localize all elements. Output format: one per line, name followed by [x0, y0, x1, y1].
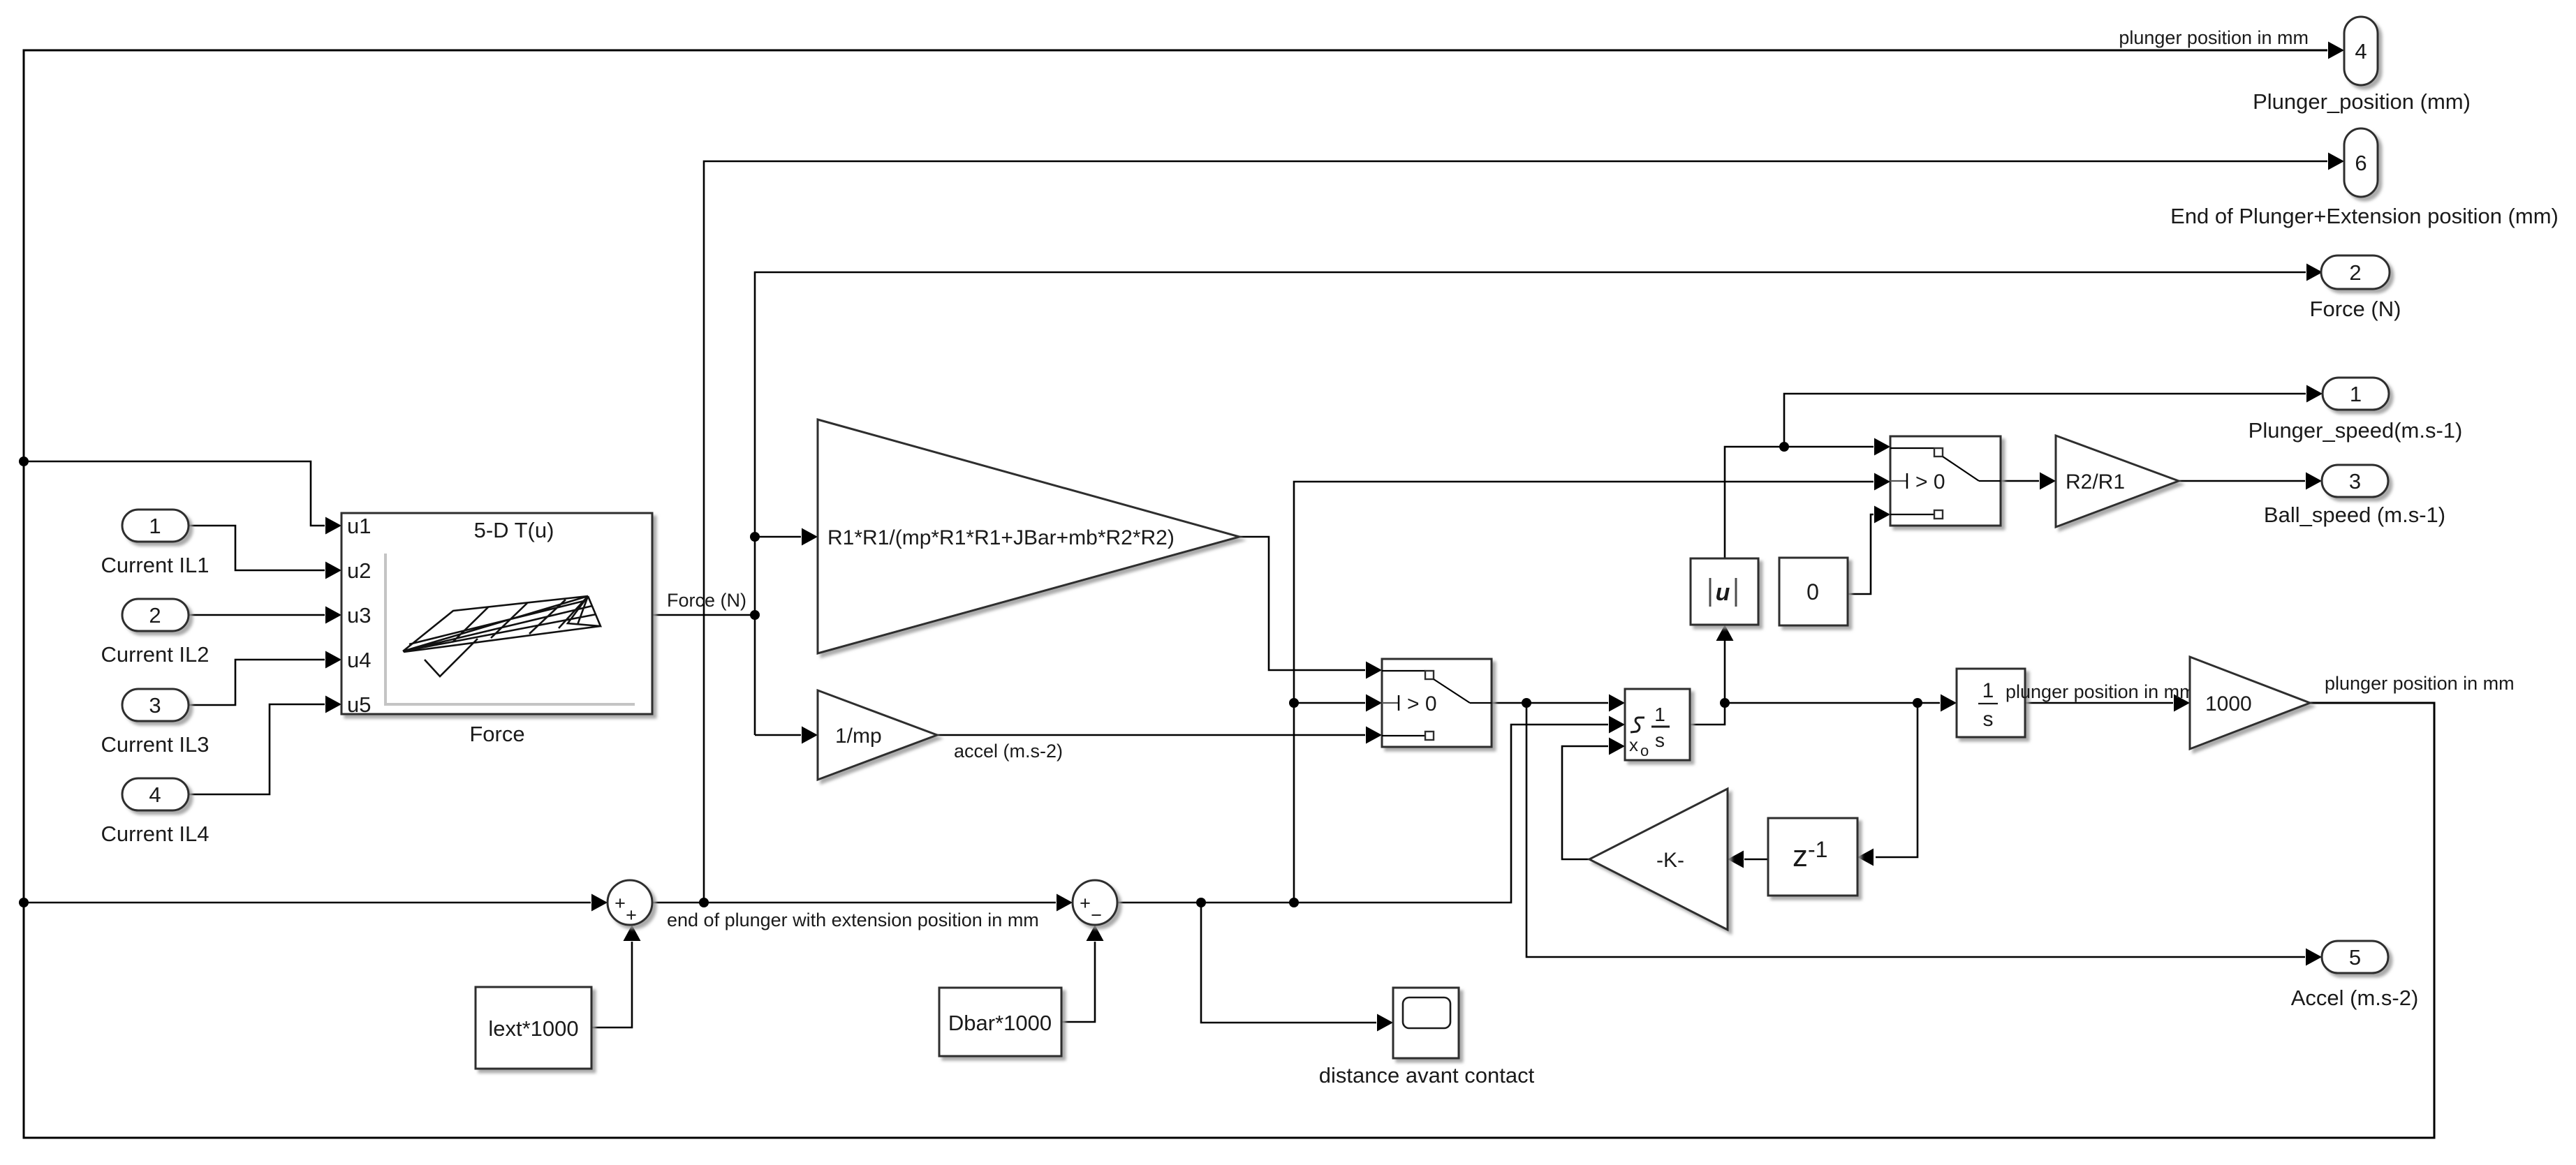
svg-text:Force (N): Force (N) — [667, 590, 746, 611]
svg-text:u2: u2 — [347, 558, 371, 583]
svg-text:x: x — [1629, 734, 1638, 755]
svg-text:1: 1 — [2350, 382, 2362, 406]
svg-text:+: + — [1080, 893, 1091, 914]
svg-text:Plunger_speed(m.s-1): Plunger_speed(m.s-1) — [2249, 418, 2463, 443]
svg-text:Accel (m.s-2): Accel (m.s-2) — [2291, 986, 2419, 1010]
svg-text:Force (N): Force (N) — [2310, 297, 2401, 321]
svg-text:4: 4 — [2355, 39, 2367, 64]
svg-text:s: s — [1655, 729, 1665, 751]
svg-text:−: − — [1091, 905, 1102, 926]
svg-text:Current IL2: Current IL2 — [101, 642, 209, 667]
svg-text:-1: -1 — [1808, 837, 1827, 862]
svg-text:plunger position in mm: plunger position in mm — [2119, 27, 2309, 48]
svg-text:3: 3 — [2349, 469, 2361, 494]
svg-text:o: o — [1640, 742, 1649, 759]
svg-text:R1*R1/(mp*R1*R1+JBar+mb*R2*R2): R1*R1/(mp*R1*R1+JBar+mb*R2*R2) — [827, 526, 1175, 549]
svg-text:5-D T(u): 5-D T(u) — [474, 518, 554, 542]
svg-text:u3: u3 — [347, 603, 371, 628]
svg-text:> 0: > 0 — [1915, 470, 1945, 494]
svg-text:u: u — [1716, 579, 1730, 606]
svg-text:+: + — [614, 893, 626, 914]
svg-text:Dbar*1000: Dbar*1000 — [948, 1011, 1052, 1035]
svg-text:1000: 1000 — [2205, 692, 2252, 715]
svg-text:Current IL3: Current IL3 — [101, 732, 209, 757]
svg-text:1: 1 — [1982, 679, 1994, 702]
svg-text:-K-: -K- — [1656, 849, 1684, 872]
svg-text:end of plunger with extension: end of plunger with extension position i… — [667, 910, 1039, 930]
svg-text:distance avant contact: distance avant contact — [1319, 1063, 1535, 1088]
svg-text:Plunger_position (mm): Plunger_position (mm) — [2253, 89, 2471, 114]
svg-text:Force: Force — [469, 722, 524, 746]
svg-text:3: 3 — [149, 693, 161, 718]
svg-text:1: 1 — [149, 514, 161, 538]
svg-text:2: 2 — [2349, 260, 2361, 285]
svg-text:u4: u4 — [347, 648, 371, 672]
svg-text:plunger position in mm: plunger position in mm — [2325, 673, 2515, 694]
svg-text:2: 2 — [149, 603, 161, 628]
svg-text:4: 4 — [149, 782, 161, 807]
svg-text:lext*1000: lext*1000 — [488, 1016, 578, 1041]
svg-text:5: 5 — [2349, 945, 2361, 970]
svg-text:> 0: > 0 — [1407, 692, 1437, 715]
svg-text:u5: u5 — [347, 692, 371, 717]
svg-text:Ball_speed (m.s-1): Ball_speed (m.s-1) — [2264, 503, 2445, 527]
svg-text:+: + — [626, 905, 637, 926]
svg-text:6: 6 — [2355, 151, 2367, 175]
svg-text:0: 0 — [1806, 579, 1819, 604]
svg-text:R2/R1: R2/R1 — [2066, 470, 2125, 494]
svg-text:Current IL1: Current IL1 — [101, 553, 209, 577]
svg-text:z: z — [1793, 839, 1808, 873]
svg-text:1/mp: 1/mp — [835, 725, 882, 748]
svg-text:End of Plunger+Extension posit: End of Plunger+Extension position (mm) — [2170, 204, 2559, 228]
svg-text:s: s — [1983, 708, 1994, 731]
svg-text:1: 1 — [1654, 704, 1665, 725]
svg-text:accel (m.s-2): accel (m.s-2) — [954, 741, 1063, 762]
svg-text:Current IL4: Current IL4 — [101, 822, 209, 846]
svg-text:u1: u1 — [347, 514, 371, 538]
svg-text:plunger position in mm: plunger position in mm — [2005, 681, 2195, 702]
